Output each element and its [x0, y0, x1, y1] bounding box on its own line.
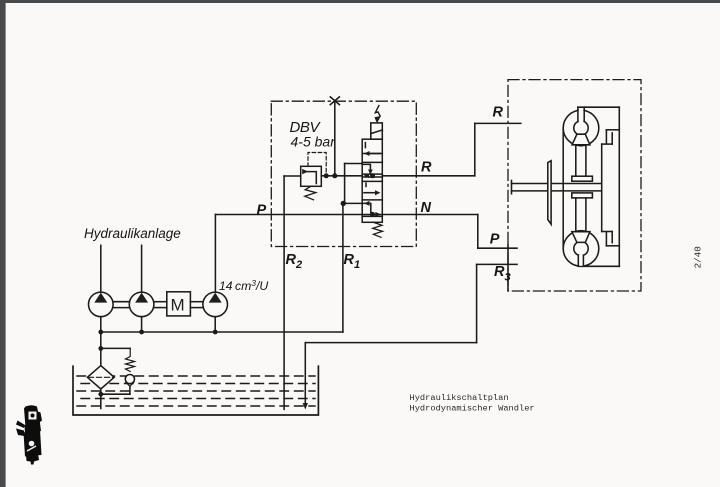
wire pump2 outlet up	[141, 245, 143, 292]
solenoid diagonal	[371, 130, 383, 134]
dash-dot enclosure box around valves	[271, 101, 416, 246]
converter casing right wall	[618, 107, 620, 266]
pump P3 flow triangle	[209, 293, 222, 303]
converter bottom wheel outer circle	[563, 231, 599, 267]
motor M box	[167, 292, 191, 316]
tank fluid dashes row2	[81, 383, 315, 385]
valve divider 6	[362, 199, 382, 201]
valve divider 3 (R upper)	[362, 173, 382, 175]
converter bottom wheel hub	[574, 241, 588, 255]
valve divider 2	[362, 161, 382, 163]
wire R into converter box	[475, 122, 521, 124]
bypass spring	[126, 348, 135, 371]
svg-text:R: R	[493, 105, 504, 121]
converter bottom notch	[602, 231, 613, 233]
valve entry arrowhead cell4	[364, 201, 370, 206]
wire vent line from box top	[334, 101, 336, 176]
stamp bottom left	[16, 405, 42, 464]
wire bypass top	[101, 347, 130, 349]
svg-text:N: N	[421, 200, 432, 216]
svg-text:R: R	[421, 159, 432, 175]
valve divider 7 (N)	[362, 215, 382, 217]
X mark on box top	[330, 97, 339, 105]
DBV relief valve body	[301, 166, 322, 186]
junction R1 valve port	[341, 201, 346, 206]
scanner left border bar	[0, 0, 6, 487]
svg-text:M: M	[171, 296, 185, 315]
svg-text:Hydraulikschaltplan: Hydraulikschaltplan	[410, 393, 509, 403]
DBV spring	[305, 186, 316, 200]
converter top wheel outer circle	[563, 110, 599, 146]
wire DBV outlet to valve (R)	[321, 175, 362, 177]
converter upper stem right	[585, 145, 587, 176]
wire bypass down	[129, 386, 131, 394]
converter casing top line	[578, 106, 619, 108]
svg-text:2/40: 2/40	[693, 246, 704, 268]
converter lower stem left	[575, 198, 577, 232]
converter top wheel skirt	[572, 134, 590, 145]
wire common suction line	[101, 331, 343, 333]
wire bypass bottom	[101, 393, 130, 395]
converter lower stem right	[585, 198, 587, 232]
wire valve top port bend vertical	[344, 164, 346, 204]
shaft P1-P2 lower line	[113, 307, 129, 309]
converter fin blade	[548, 161, 551, 225]
wire R1 vertical riser	[342, 203, 344, 332]
bypass check valve circle	[125, 375, 134, 384]
wire R2 vertical down to tank	[283, 176, 285, 409]
valve tick cell3	[365, 183, 367, 186]
DBV pilot dashed line	[308, 153, 326, 176]
valve bend arrow cell2	[362, 164, 370, 172]
valve divider 4 (R lower)	[362, 176, 382, 178]
wire N to converter P drop	[477, 215, 479, 249]
pump P2 flow triangle	[135, 293, 148, 303]
valve left arrow on divider1	[366, 153, 380, 155]
converter top wheel hub	[574, 121, 588, 135]
tank outline	[73, 366, 318, 415]
wire R1 port into valve	[343, 202, 362, 204]
svg-text:14 cm3/U: 14 cm3/U	[219, 278, 268, 293]
shaft P1-P2 upper line	[113, 301, 129, 303]
valve right arrow cell3	[364, 192, 378, 194]
filter diamond	[87, 366, 114, 389]
directional valve body	[362, 139, 382, 222]
junction vent on R line	[332, 173, 337, 178]
wire R3 from converter	[477, 263, 517, 265]
converter bottom wheel slot	[579, 255, 584, 266]
converter shaft lower line	[512, 190, 602, 192]
tank fluid dashes row3	[77, 390, 315, 392]
R3 tank arrowhead	[303, 403, 308, 410]
converter upper stem left	[575, 145, 577, 176]
converter inner wall	[601, 144, 603, 231]
valve N right arrowhead	[375, 212, 381, 217]
svg-text:4-5 bar: 4-5 bar	[291, 133, 337, 149]
filter mesh dashed line	[89, 376, 114, 378]
valve tick arrow cell1	[364, 143, 366, 148]
valve bend arrow cell4	[363, 203, 371, 212]
DBV internal arrow	[307, 172, 317, 184]
valve N dot	[370, 212, 375, 217]
junction pump2 suction	[139, 330, 144, 335]
wire valve top port bend horizontal	[345, 163, 363, 165]
converter shaft end cap	[511, 180, 513, 193]
shaft M-P3 lower line	[190, 307, 203, 309]
solenoid lightning arrow	[375, 106, 380, 116]
junction filter bottom	[98, 392, 103, 397]
wire R3 down	[476, 264, 478, 342]
valve R left arrowhead	[364, 173, 370, 178]
svg-text:P: P	[257, 202, 267, 218]
shaft M-P3 upper line	[190, 301, 203, 303]
valve R dot	[370, 173, 375, 178]
scanner top border bar	[0, 0, 720, 3]
converter upper flange	[572, 176, 593, 181]
svg-text:P: P	[490, 232, 500, 248]
converter casing bottom line	[578, 265, 619, 267]
pump P1 flow triangle	[94, 293, 107, 303]
valve divider 5	[362, 180, 382, 182]
junction pump3 suction	[213, 330, 218, 335]
converter top notch	[606, 129, 619, 131]
converter top wheel slot	[579, 108, 584, 122]
tank fluid dashes row5	[77, 405, 315, 407]
valve spring bottom	[373, 222, 383, 237]
converter box solid edge segment	[507, 245, 509, 291]
wire pump3 outlet up to P line	[214, 215, 216, 293]
svg-text:Hydraulikanlage: Hydraulikanlage	[84, 226, 181, 241]
shaft P2-M lower line	[154, 307, 167, 309]
wire R line valve to right	[382, 175, 475, 177]
junction pump1 suction	[98, 330, 103, 335]
wire converter P inlet	[478, 247, 517, 249]
wire pump1 suction down	[100, 317, 102, 366]
bypass check seat	[126, 382, 134, 386]
pump P3 circle	[203, 292, 228, 317]
wire pump2 suction down	[141, 317, 143, 332]
wire R3 horizontal to tank	[305, 342, 476, 344]
converter shaft upper line	[512, 183, 602, 185]
wire pump1 outlet up	[100, 245, 102, 292]
solenoid box	[371, 123, 383, 139]
converter lower flange	[572, 193, 593, 198]
dash-dot enclosure box around converter	[508, 80, 641, 291]
wire pump3 suction down	[214, 317, 216, 332]
converter bottom wheel skirt	[572, 232, 590, 243]
wire P/N horizontal line	[215, 214, 477, 216]
svg-text:Hydrodynamischer Wandler: Hydrodynamischer Wandler	[410, 403, 535, 413]
junction filter top	[98, 346, 103, 351]
wire R riser up	[474, 123, 476, 175]
junction pilot on R line	[324, 173, 329, 178]
wire R3 drop into tank	[304, 343, 306, 404]
tank fluid dashes row1	[77, 375, 315, 377]
shaft P2-M upper line	[154, 301, 167, 303]
valve divider 1	[362, 153, 382, 155]
converter casing left wall	[562, 128, 564, 249]
pump P2 circle	[129, 292, 154, 317]
wire R2 drain from DBV	[284, 175, 301, 177]
pump P1 circle	[89, 292, 114, 317]
wire filter to tank bottom	[100, 389, 102, 409]
tank fluid dashes row4	[81, 398, 315, 400]
